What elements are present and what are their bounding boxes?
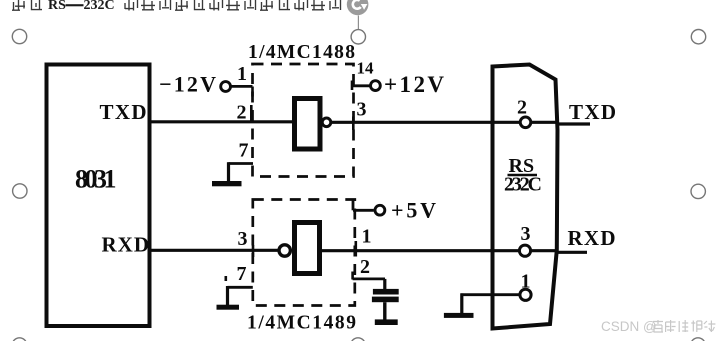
- connector pin 3 circle: [519, 245, 530, 256]
- terminal circle +12V: [371, 81, 381, 91]
- wire U1 output to connector pin 2: [331, 121, 520, 124]
- svg-text:1: 1: [362, 226, 372, 248]
- pin 14 tick U1: [351, 81, 354, 91]
- wire connector pin 2 to right edge: [531, 121, 556, 124]
- wire U2 pin 2 to capacitor C1: [353, 277, 385, 280]
- capacitor C1 bottom plate: [372, 297, 399, 303]
- svg-text:232C: 232C: [84, 0, 115, 13]
- svg-text:RXD: RXD: [568, 226, 616, 250]
- driver gate U1 body: [295, 99, 321, 150]
- selection rotation handle: [347, 0, 369, 30]
- wire TXD: 8031 to U1 input: [150, 120, 293, 123]
- wire connector pin 1 to ground: [461, 293, 520, 296]
- svg-text:TXD: TXD: [569, 100, 616, 124]
- IC 8031 box: [47, 65, 150, 327]
- svg-text:7: 7: [237, 263, 247, 285]
- pin 1 tick U1: [251, 87, 254, 97]
- terminal circle +5V: [375, 205, 385, 215]
- receiver gate U2 body: [295, 223, 320, 274]
- connector J1 RS-232C body: [493, 65, 558, 329]
- pin 1 tick U2: [354, 241, 357, 257]
- svg-text:2: 2: [360, 256, 370, 278]
- capacitor C1 top plate: [373, 289, 399, 295]
- svg-text:3: 3: [357, 99, 367, 121]
- receiver gate U2 input bubble: [279, 245, 290, 256]
- svg-text:1/4MC1489: 1/4MC1489: [247, 313, 356, 334]
- svg-text:2: 2: [517, 97, 527, 119]
- wire RXD: 8031 to U2 input bubble: [150, 249, 279, 252]
- wire capacitor C1 to ground: [383, 302, 386, 320]
- wire TXD stub outside connector: [556, 122, 590, 125]
- ground bar G1: [212, 181, 242, 186]
- connector pin 2 circle: [520, 117, 531, 128]
- svg-text:1: 1: [237, 63, 247, 85]
- wire U2 pin 7 to ground: [228, 286, 253, 289]
- wire RXD stub outside connector: [556, 251, 587, 254]
- wire -12V terminal to U1 pin 1: [232, 85, 253, 88]
- svg-text:1: 1: [521, 271, 531, 293]
- svg-text:CSDN @: CSDN @: [601, 319, 657, 334]
- svg-text:2: 2: [237, 102, 247, 124]
- svg-text:1/4MC1488: 1/4MC1488: [248, 42, 355, 63]
- pin 2 tick U1: [250, 105, 253, 121]
- svg-text:14: 14: [357, 59, 375, 78]
- wire U1 pin 7 to ground: [229, 162, 254, 165]
- pin 3 tick U1: [352, 117, 355, 131]
- wire U2 pin 14 corner to +5V terminal: [352, 200, 355, 211]
- ground bar G3: [444, 313, 474, 318]
- svg-text:3: 3: [521, 223, 531, 245]
- wire U2 output to connector pin 3: [322, 249, 519, 252]
- watermark CSDN: [601, 319, 715, 334]
- cropped caption latin text RS-232C: [48, 0, 115, 13]
- ground bar G2: [217, 305, 240, 310]
- pin 2 tick U2: [351, 272, 354, 280]
- cropped caption hanzi fragments (top edge): [12, 0, 341, 11]
- terminal circle -12V: [221, 82, 231, 92]
- svg-text:8031: 8031: [75, 165, 117, 194]
- svg-text:+5V: +5V: [391, 198, 436, 223]
- svg-text:232C: 232C: [504, 174, 542, 196]
- connector pin 1 circle: [520, 289, 531, 300]
- svg-text:3: 3: [238, 228, 248, 250]
- svg-text:TXD: TXD: [100, 100, 147, 124]
- RS label underline: [508, 174, 538, 176]
- IC U1 1/4MC1488 dashed outline: [253, 64, 354, 177]
- IC U2 1/4MC1489 dashed outline: [253, 200, 355, 306]
- svg-text:−12V: −12V: [159, 72, 216, 97]
- pin 3 tick U2: [252, 245, 255, 257]
- svg-text:7: 7: [239, 140, 249, 162]
- wire U1 pin 14 to +12V terminal: [352, 84, 370, 87]
- driver gate U1 output bump: [322, 118, 331, 127]
- wire connector pin 3 to right edge: [531, 249, 556, 252]
- svg-text:+12V: +12V: [384, 72, 444, 97]
- svg-text:RS: RS: [48, 0, 66, 13]
- ground bar below C1: [375, 319, 398, 325]
- svg-text:RXD: RXD: [102, 233, 150, 257]
